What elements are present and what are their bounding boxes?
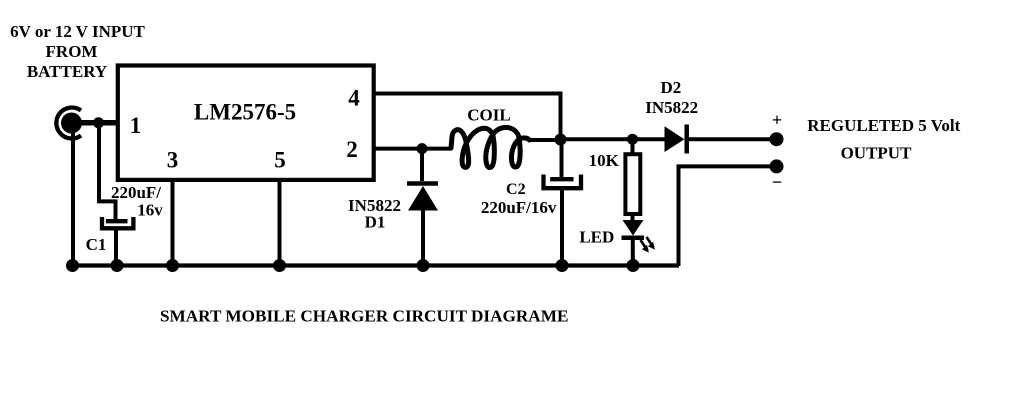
node: C2 on rail [556, 259, 569, 272]
wire: pin 3 down to rail [171, 179, 175, 266]
svg-text:C1: C1 [86, 235, 107, 254]
input connector J1 [56, 108, 82, 139]
svg-text:BATTERY: BATTERY [27, 62, 107, 81]
wire: pin 2 to coil [373, 147, 452, 151]
svg-text:10K: 10K [589, 151, 620, 170]
node: D1 on rail [417, 259, 430, 272]
capacitor C1 [102, 217, 133, 228]
capacitor C1 value label [111, 183, 163, 220]
op-amp U1 LM2576-5 body [118, 66, 374, 180]
svg-text:D2: D2 [661, 78, 682, 97]
svg-text:220uF/16v: 220uF/16v [481, 198, 557, 217]
node: input junction [93, 117, 104, 128]
node: rail left end [66, 259, 79, 272]
capacitor C2 [544, 175, 582, 189]
minus terminal [770, 159, 784, 173]
wire: C2 to rail [560, 189, 564, 266]
wire: connector to pin 1 [71, 120, 118, 126]
svg-text:2: 2 [346, 137, 358, 162]
node: output node junction [555, 134, 567, 146]
input label text [10, 22, 145, 81]
wire: D1 junction down to diode [420, 149, 424, 181]
svg-text:−: − [772, 172, 782, 192]
wire: D1 to rail [421, 210, 425, 266]
wire: pin 4 right and down to output node [373, 94, 561, 141]
wire: junction down to C1 (jog) [99, 123, 116, 220]
svg-text:220uF/: 220uF/ [111, 183, 161, 202]
resistor R1 10K [625, 154, 640, 214]
ground rail [71, 263, 679, 267]
C2 labels [481, 181, 557, 217]
inductor L1 coil [451, 127, 530, 167]
svg-text:16v: 16v [137, 201, 163, 220]
svg-text:LED: LED [579, 228, 614, 247]
wire: minus terminal left and down to rail [679, 166, 777, 266]
wire: connector down to ground rail [71, 128, 75, 266]
wire: junction to resistor top [631, 139, 635, 155]
D2 labels [645, 78, 698, 117]
svg-text:REGULETED 5 Volt: REGULETED 5 Volt [807, 116, 960, 135]
wire: D2 to plus terminal [689, 137, 777, 141]
svg-text:6V or 12 V INPUT: 6V or 12 V INPUT [10, 22, 145, 41]
wire: LED to rail [631, 239, 635, 266]
svg-text:OUTPUT: OUTPUT [841, 144, 913, 163]
node: C1 on rail [111, 259, 124, 272]
node: pin3 on rail [166, 259, 179, 272]
diode D1 IN5822 [407, 184, 438, 211]
svg-text:C2: C2 [506, 181, 526, 198]
wire: pin 5 down to rail [278, 179, 282, 266]
svg-text:+: + [772, 110, 782, 130]
svg-text:LM2576-5: LM2576-5 [194, 100, 296, 125]
svg-text:D1: D1 [365, 213, 386, 232]
LED D3 [622, 220, 655, 253]
svg-text:1: 1 [130, 113, 142, 138]
svg-text:COIL: COIL [467, 106, 510, 125]
svg-text:4: 4 [348, 86, 360, 111]
output text [807, 116, 960, 163]
svg-text:IN5822: IN5822 [645, 98, 698, 117]
wire: output node to D2 junction [561, 137, 665, 141]
svg-text:FROM: FROM [46, 42, 98, 61]
node: resistor junction [627, 134, 638, 145]
node: D1 junction [417, 143, 428, 154]
D1 labels [348, 196, 401, 232]
plus terminal [770, 132, 784, 146]
svg-text:SMART MOBILE CHARGER CIRCUIT D: SMART MOBILE CHARGER CIRCUIT DIAGRAME [160, 307, 568, 326]
svg-text:3: 3 [167, 148, 179, 173]
wire: coil to output node [529, 138, 561, 142]
wire: C2 drop from output node [560, 140, 564, 178]
node: LED on rail [627, 259, 640, 272]
svg-text:5: 5 [274, 148, 286, 173]
wire: C1 to ground rail [114, 228, 118, 266]
node: pin5 on rail [273, 259, 286, 272]
wire: resistor to LED [631, 214, 635, 221]
diode D2 IN5822 [665, 125, 687, 154]
